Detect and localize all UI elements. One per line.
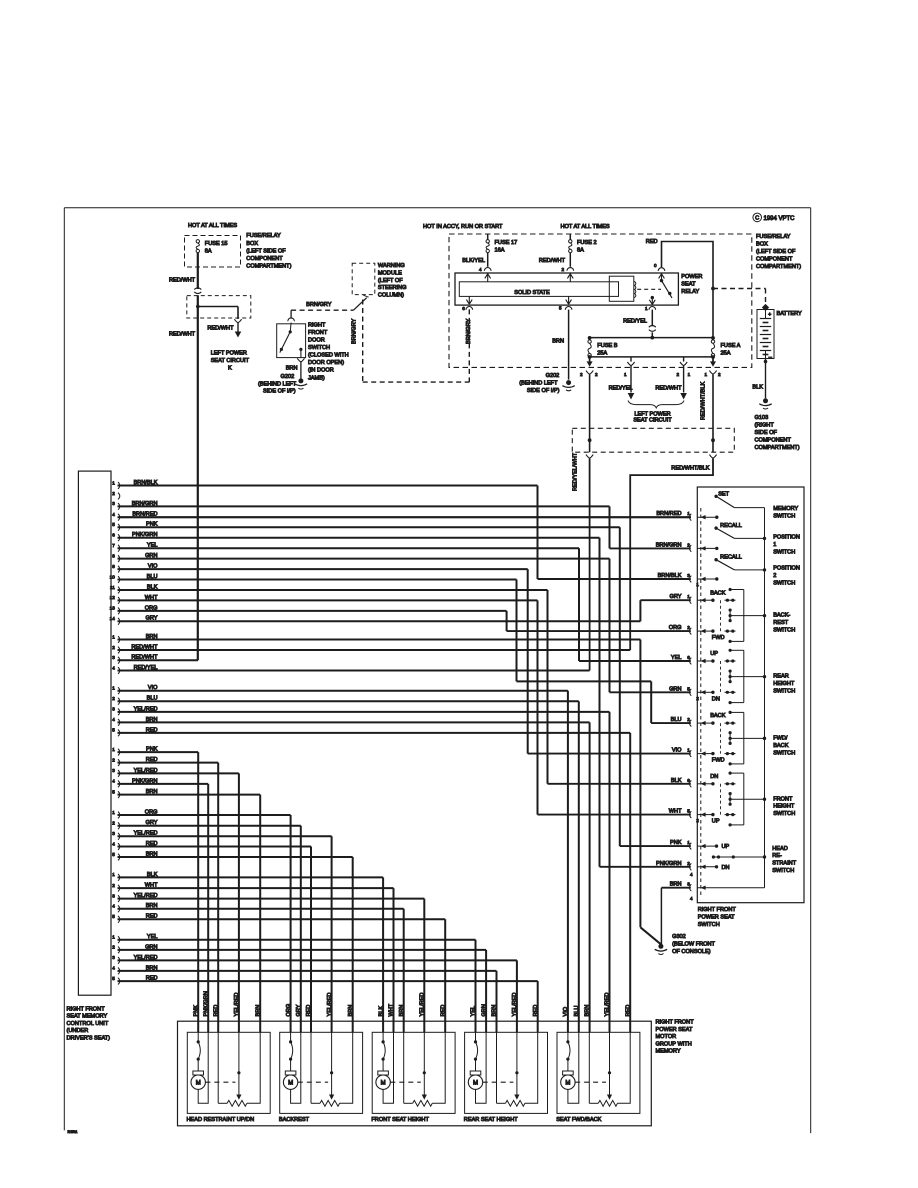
svg-text:YEL: YEL — [471, 1006, 477, 1017]
svg-text:COMPONENT: COMPONENT — [756, 256, 793, 262]
svg-text:YEL/RED: YEL/RED — [420, 993, 426, 1017]
svg-text:BRN: BRN — [492, 1005, 498, 1017]
svg-text:1: 1 — [704, 372, 707, 377]
svg-text:SET: SET — [718, 491, 729, 497]
svg-text:MOTOR: MOTOR — [656, 1034, 677, 1040]
svg-text:2: 2 — [773, 573, 776, 579]
svg-text:HEIGHT: HEIGHT — [773, 804, 795, 810]
svg-text:RED/WHT: RED/WHT — [539, 258, 566, 264]
svg-text:25A: 25A — [721, 351, 731, 357]
svg-text:G202: G202 — [281, 374, 295, 380]
svg-text:REAR SEAT HEIGHT: REAR SEAT HEIGHT — [464, 1117, 518, 1123]
svg-text:K: K — [228, 366, 232, 372]
svg-text:1: 1 — [112, 747, 115, 752]
svg-text:1: 1 — [687, 511, 690, 516]
svg-text:RIGHT FRONT: RIGHT FRONT — [698, 907, 737, 913]
svg-text:6: 6 — [112, 533, 115, 538]
svg-text:4: 4 — [690, 896, 693, 901]
svg-text:6: 6 — [687, 655, 690, 660]
svg-text:RIGHT FRONT: RIGHT FRONT — [67, 1006, 106, 1012]
svg-text:SEAT CIRCUIT: SEAT CIRCUIT — [633, 417, 672, 423]
svg-text:5: 5 — [112, 852, 115, 857]
svg-text:3: 3 — [112, 831, 115, 836]
svg-text:2: 2 — [687, 861, 690, 866]
svg-text:BRN: BRN — [670, 882, 682, 888]
svg-text:11: 11 — [110, 585, 115, 590]
svg-text:FUSE/RELAY: FUSE/RELAY — [246, 233, 281, 239]
svg-text:POWER SEAT: POWER SEAT — [698, 915, 735, 921]
svg-text:8A: 8A — [205, 248, 212, 254]
svg-text:RELAY: RELAY — [681, 289, 699, 295]
svg-text:G103: G103 — [755, 415, 769, 421]
svg-text:(BEHIND LEFT: (BEHIND LEFT — [258, 381, 297, 387]
svg-text:HEAD: HEAD — [772, 846, 788, 852]
svg-text:8: 8 — [112, 553, 115, 558]
svg-text:5: 5 — [112, 976, 115, 981]
svg-text:ORG: ORG — [669, 625, 682, 631]
svg-text:RED/YEL: RED/YEL — [623, 319, 647, 325]
svg-text:4: 4 — [690, 872, 693, 877]
svg-text:ORG: ORG — [286, 1004, 292, 1017]
svg-text:BACKREST: BACKREST — [279, 1117, 310, 1123]
svg-text:4: 4 — [479, 267, 482, 272]
svg-text:COMPARTMENT): COMPARTMENT) — [756, 264, 801, 270]
svg-text:1: 1 — [624, 372, 627, 377]
svg-text:1: 1 — [687, 594, 690, 599]
svg-text:YEL/RED: YEL/RED — [605, 993, 611, 1017]
svg-text:M: M — [565, 1081, 570, 1087]
svg-text:BOX: BOX — [756, 241, 768, 247]
svg-text:M: M — [381, 1081, 386, 1087]
svg-text:SWITCH: SWITCH — [773, 549, 795, 555]
svg-text:DN: DN — [710, 774, 718, 780]
svg-text:5: 5 — [112, 914, 115, 919]
svg-text:SIDE OF: SIDE OF — [755, 430, 778, 436]
svg-text:BRN/GRY: BRN/GRY — [306, 302, 332, 308]
svg-text:SIDE OF I/P): SIDE OF I/P) — [263, 388, 296, 394]
svg-text:MEMORY: MEMORY — [773, 506, 798, 512]
svg-text:(BEHIND LEFT: (BEHIND LEFT — [519, 381, 558, 387]
svg-text:5: 5 — [687, 809, 690, 814]
svg-text:WARNING: WARNING — [378, 263, 405, 269]
svg-text:RED/WHT: RED/WHT — [207, 325, 234, 331]
svg-text:FUSE 15: FUSE 15 — [205, 241, 228, 247]
svg-text:HOT AT ALL TIMES: HOT AT ALL TIMES — [188, 223, 237, 229]
svg-text:5: 5 — [112, 789, 115, 794]
svg-text:1: 1 — [112, 480, 115, 485]
svg-text:PNK/GRN: PNK/GRN — [203, 991, 209, 1017]
svg-text:UP: UP — [712, 819, 720, 825]
svg-text:1: 1 — [645, 306, 648, 311]
svg-text:0: 0 — [654, 263, 657, 268]
svg-text:RED: RED — [533, 1005, 539, 1017]
svg-text:BLK: BLK — [671, 778, 682, 784]
svg-text:RH581: RH581 — [68, 1130, 78, 1134]
svg-text:BRN: BRN — [399, 1005, 405, 1017]
svg-text:(CLOSED WITH: (CLOSED WITH — [308, 353, 349, 359]
svg-text:PNK/GRN: PNK/GRN — [656, 861, 682, 867]
svg-text:6: 6 — [687, 778, 690, 783]
svg-text:FUSE/RELAY: FUSE/RELAY — [756, 234, 791, 240]
svg-text:(BELOW FRONT: (BELOW FRONT — [672, 941, 715, 947]
svg-text:7: 7 — [112, 543, 115, 548]
svg-text:3: 3 — [112, 501, 115, 506]
svg-text:FUSE 2: FUSE 2 — [577, 240, 597, 246]
svg-text:G302: G302 — [672, 934, 686, 940]
svg-text:YEL/RED: YEL/RED — [327, 993, 333, 1017]
svg-text:DRIVER'S SEAT): DRIVER'S SEAT) — [67, 1036, 111, 1042]
svg-text:HEAD RESTRAINT UP/DN: HEAD RESTRAINT UP/DN — [187, 1117, 255, 1123]
svg-text:13: 13 — [110, 606, 116, 611]
svg-text:1994 VPTC: 1994 VPTC — [764, 216, 796, 222]
svg-text:4: 4 — [112, 665, 115, 670]
svg-text:RE-: RE- — [772, 853, 782, 859]
svg-text:HOT IN ACCY, RUN OR START: HOT IN ACCY, RUN OR START — [423, 224, 503, 230]
svg-text:3: 3 — [687, 573, 690, 578]
svg-text:OF CONSOLE): OF CONSOLE) — [672, 949, 711, 955]
svg-text:4: 4 — [112, 717, 115, 722]
svg-text:2: 2 — [112, 883, 115, 888]
svg-text:3: 3 — [112, 893, 115, 898]
svg-text:WHT: WHT — [669, 809, 682, 815]
svg-text:DN: DN — [722, 865, 730, 871]
svg-text:CONTROL UNIT: CONTROL UNIT — [67, 1021, 109, 1027]
svg-text:1: 1 — [112, 935, 115, 940]
svg-text:MEMORY: MEMORY — [656, 1049, 681, 1055]
svg-text:4: 4 — [112, 966, 115, 971]
svg-text:1: 1 — [112, 872, 115, 877]
svg-text:REST: REST — [773, 620, 789, 626]
svg-text:SWITCH: SWITCH — [773, 811, 795, 817]
svg-text:1: 1 — [687, 748, 690, 753]
svg-text:COMPARTMENT): COMPARTMENT) — [246, 264, 291, 270]
svg-text:2: 2 — [112, 645, 115, 650]
svg-text:GRN: GRN — [481, 1004, 487, 1016]
svg-text:G202: G202 — [546, 373, 560, 379]
svg-text:2: 2 — [112, 696, 115, 701]
svg-text:MODULE: MODULE — [378, 270, 402, 276]
svg-text:5: 5 — [112, 728, 115, 733]
svg-text:(RIGHT: (RIGHT — [755, 423, 775, 429]
svg-text:FRONT: FRONT — [773, 796, 793, 802]
svg-text:3: 3 — [112, 955, 115, 960]
svg-text:1: 1 — [112, 810, 115, 815]
svg-text:16A: 16A — [495, 247, 505, 253]
svg-text:(LEFT SIDE OF: (LEFT SIDE OF — [246, 248, 286, 254]
svg-text:BACK-: BACK- — [773, 613, 790, 619]
svg-text:GRN: GRN — [669, 686, 681, 692]
svg-text:RED/WHT/BLK: RED/WHT/BLK — [671, 466, 709, 472]
svg-text:2: 2 — [112, 757, 115, 762]
svg-text:BLK/YEL: BLK/YEL — [462, 258, 485, 264]
svg-text:25A: 25A — [597, 351, 607, 357]
svg-text:10: 10 — [110, 574, 116, 579]
svg-text:BRN/BLK: BRN/BLK — [658, 573, 682, 579]
svg-text:STEERING: STEERING — [378, 285, 407, 291]
svg-text:PNK: PNK — [193, 1005, 199, 1017]
svg-text:SWITCH: SWITCH — [773, 688, 795, 694]
svg-text:SWITCH: SWITCH — [773, 750, 795, 756]
svg-text:YEL/RED: YEL/RED — [234, 993, 240, 1017]
svg-text:1: 1 — [773, 542, 776, 548]
svg-text:SWITCH: SWITCH — [308, 345, 330, 351]
svg-text:RED/WHT/BLK: RED/WHT/BLK — [700, 382, 706, 420]
svg-text:5: 5 — [559, 305, 562, 310]
svg-text:SOLID STATE: SOLID STATE — [514, 290, 550, 296]
svg-text:BLU: BLU — [671, 717, 682, 723]
svg-text:BRN: BRN — [255, 1005, 261, 1017]
svg-text:RED: RED — [440, 1005, 446, 1017]
svg-text:+: + — [768, 312, 771, 318]
svg-text:SEAT CIRCUIT: SEAT CIRCUIT — [211, 358, 250, 364]
svg-text:2: 2 — [112, 821, 115, 826]
svg-text:RED/YEL/WHT: RED/YEL/WHT — [572, 452, 578, 491]
svg-text:BLK: BLK — [378, 1006, 384, 1017]
svg-text:JAMB): JAMB) — [308, 375, 325, 381]
svg-text:2: 2 — [687, 542, 690, 547]
svg-text:REAR: REAR — [773, 674, 789, 680]
svg-text:RED: RED — [646, 239, 658, 245]
svg-text:2: 2 — [580, 372, 583, 377]
svg-text:GRY: GRY — [669, 594, 681, 600]
svg-text:BLU: BLU — [574, 1006, 580, 1017]
svg-text:RED: RED — [625, 1005, 631, 1017]
svg-text:POSITION: POSITION — [773, 535, 800, 541]
svg-text:RED: RED — [213, 1005, 219, 1017]
svg-text:FWD: FWD — [712, 635, 725, 641]
svg-text:BOX: BOX — [246, 241, 258, 247]
svg-text:RED: RED — [306, 1005, 312, 1017]
svg-text:12: 12 — [110, 595, 116, 600]
svg-text:SWITCH: SWITCH — [698, 922, 720, 928]
svg-text:COMPARTMENT): COMPARTMENT) — [755, 445, 800, 451]
svg-text:FWD/: FWD/ — [773, 736, 788, 742]
svg-text:SIDE OF I/P): SIDE OF I/P) — [527, 388, 560, 394]
svg-text:(IN DOOR: (IN DOOR — [308, 368, 334, 374]
svg-text:6: 6 — [462, 306, 465, 311]
svg-text:BRN/GRN: BRN/GRN — [656, 542, 682, 548]
svg-text:WHT: WHT — [389, 1003, 395, 1016]
svg-text:BATTERY: BATTERY — [777, 311, 803, 317]
svg-text:POWER: POWER — [681, 274, 702, 280]
svg-text:3: 3 — [687, 882, 690, 887]
svg-text:1: 1 — [688, 372, 691, 377]
svg-text:YEL: YEL — [671, 655, 682, 661]
svg-text:SEAT FWD/BACK: SEAT FWD/BACK — [556, 1117, 601, 1123]
svg-text:M: M — [473, 1081, 478, 1087]
svg-text:M: M — [288, 1081, 293, 1087]
svg-text:2: 2 — [718, 372, 721, 377]
svg-text:COMPONENT: COMPONENT — [246, 256, 283, 262]
svg-text:SWITCH: SWITCH — [773, 580, 795, 586]
svg-text:VIO: VIO — [672, 748, 682, 754]
svg-text:SWITCH: SWITCH — [772, 868, 794, 874]
svg-text:BRN: BRN — [286, 365, 298, 371]
svg-text:RED/YEL: RED/YEL — [609, 386, 633, 392]
svg-text:2: 2 — [687, 625, 690, 630]
svg-text:HOT AT ALL TIMES: HOT AT ALL TIMES — [561, 224, 610, 230]
svg-text:5: 5 — [687, 686, 690, 691]
svg-text:DN: DN — [712, 696, 720, 702]
svg-text:COLUMN): COLUMN) — [378, 293, 404, 299]
svg-text:2: 2 — [561, 267, 564, 272]
svg-text:4: 4 — [112, 841, 115, 846]
svg-text:2: 2 — [595, 372, 598, 377]
svg-text:RIGHT FRONT: RIGHT FRONT — [656, 1020, 695, 1026]
svg-text:PNK: PNK — [670, 840, 682, 846]
svg-text:RECALL: RECALL — [720, 523, 742, 529]
svg-text:SEAT: SEAT — [681, 281, 696, 287]
svg-text:1: 1 — [112, 634, 115, 639]
svg-text:FRONT SEAT HEIGHT: FRONT SEAT HEIGHT — [371, 1117, 429, 1123]
svg-text:GROUP WITH: GROUP WITH — [656, 1041, 692, 1047]
svg-text:RED/WHT: RED/WHT — [169, 278, 196, 284]
svg-text:RIGHT: RIGHT — [308, 322, 326, 328]
svg-text:VIO: VIO — [563, 1006, 569, 1016]
svg-text:POSITION: POSITION — [773, 566, 800, 572]
svg-text:BACK: BACK — [710, 713, 726, 719]
svg-text:1: 1 — [112, 686, 115, 691]
svg-text:RED/WHT: RED/WHT — [655, 386, 682, 392]
svg-text:FRONT: FRONT — [308, 330, 328, 336]
svg-text:BRN: BRN — [552, 339, 564, 345]
svg-text:(UNDER: (UNDER — [67, 1028, 89, 1034]
svg-text:9: 9 — [112, 564, 115, 569]
svg-text:3: 3 — [112, 768, 115, 773]
svg-text:BRN/GRY: BRN/GRY — [352, 318, 358, 344]
svg-text:FUSE 17: FUSE 17 — [495, 240, 518, 246]
svg-text:BRN: BRN — [585, 1005, 591, 1017]
svg-text:4: 4 — [112, 779, 115, 784]
svg-text:FUSE B: FUSE B — [597, 343, 617, 349]
svg-text:2: 2 — [112, 945, 115, 950]
svg-text:2: 2 — [677, 372, 680, 377]
svg-text:2: 2 — [112, 491, 115, 496]
svg-text:1: 1 — [687, 840, 690, 845]
svg-text:HEIGHT: HEIGHT — [773, 681, 795, 687]
svg-text:4: 4 — [112, 512, 115, 517]
svg-text:BRN/RED: BRN/RED — [656, 511, 681, 517]
svg-text:FUSE A: FUSE A — [721, 343, 741, 349]
svg-text:FWD: FWD — [712, 758, 725, 764]
svg-text:YEL/RED: YEL/RED — [512, 993, 518, 1017]
svg-text:SWITCH: SWITCH — [773, 513, 795, 519]
svg-text:BACK: BACK — [710, 590, 726, 596]
svg-text:RECALL: RECALL — [720, 555, 742, 561]
svg-text:(LEFT OF: (LEFT OF — [378, 278, 403, 284]
svg-text:M: M — [196, 1081, 201, 1087]
svg-text:BACK: BACK — [773, 743, 789, 749]
svg-text:BRN: BRN — [348, 1005, 354, 1017]
svg-text:COMPONENT: COMPONENT — [755, 438, 792, 444]
svg-text:3: 3 — [112, 655, 115, 660]
svg-text:UP: UP — [710, 651, 718, 657]
svg-text:14: 14 — [110, 616, 116, 621]
svg-text:5: 5 — [112, 522, 115, 527]
svg-text:BLK: BLK — [752, 385, 763, 391]
svg-text:SEAT MEMORY: SEAT MEMORY — [67, 1014, 108, 1020]
svg-text:UP: UP — [722, 844, 730, 850]
svg-text:RED/WHT: RED/WHT — [169, 332, 196, 338]
svg-text:8A: 8A — [577, 247, 584, 253]
svg-text:SWITCH: SWITCH — [773, 628, 795, 634]
svg-text:(LEFT SIDE OF: (LEFT SIDE OF — [756, 249, 796, 255]
svg-text:STRAINT: STRAINT — [772, 861, 797, 867]
svg-text:C: C — [755, 216, 759, 222]
svg-text:LEFT POWER: LEFT POWER — [211, 351, 247, 357]
svg-text:DOOR OPEN): DOOR OPEN) — [308, 360, 344, 366]
svg-text:POWER SEAT: POWER SEAT — [656, 1027, 693, 1033]
svg-text:BRN/GRY: BRN/GRY — [466, 318, 472, 344]
svg-text:3: 3 — [112, 707, 115, 712]
svg-text:GRY: GRY — [296, 1004, 302, 1016]
svg-text:4: 4 — [112, 904, 115, 909]
svg-text:DOOR: DOOR — [308, 338, 325, 344]
svg-text:2: 2 — [687, 717, 690, 722]
